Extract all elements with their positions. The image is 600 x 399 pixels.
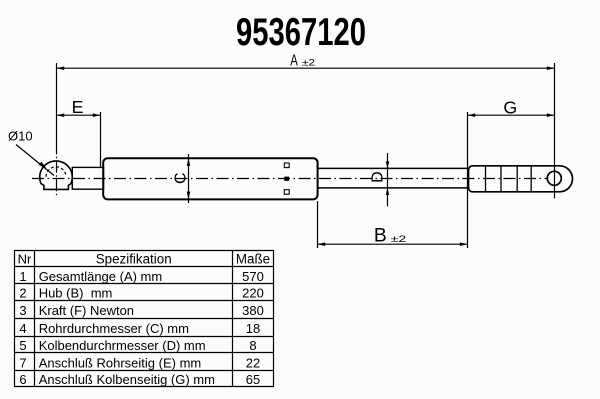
- svg-text:Ø10: Ø10: [8, 129, 33, 144]
- dim A arrow right: [547, 66, 555, 70]
- table right border: [273, 251, 275, 387]
- table top border: [14, 250, 274, 252]
- svg-text:Gesamtlänge (A) mm: Gesamtlänge (A) mm: [39, 269, 163, 284]
- svg-text:65: 65: [246, 372, 260, 387]
- rod-end fitting body: [469, 166, 573, 192]
- svg-text:Rohrdurchmesser (C) mm: Rohrdurchmesser (C) mm: [39, 321, 189, 336]
- svg-text:380: 380: [242, 303, 264, 318]
- svg-text:7: 7: [19, 355, 26, 370]
- dim C line (tube diameter): [188, 154, 190, 203]
- svg-text:±2: ±2: [302, 58, 315, 69]
- svg-text:Kraft (F) Newton: Kraft (F) Newton: [39, 303, 134, 318]
- svg-text:Anschluß Rohrseitig (E) mm: Anschluß Rohrseitig (E) mm: [39, 355, 202, 370]
- svg-text:95367120: 95367120: [236, 11, 366, 54]
- table text: [18, 251, 270, 387]
- svg-text:D: D: [370, 171, 387, 182]
- dim B arrow left: [318, 242, 326, 246]
- dim G extension line left / dim B extension line right: [467, 112, 469, 248]
- svg-text:4: 4: [19, 321, 26, 336]
- port dot center (filled): [284, 177, 289, 181]
- svg-text:Hub (B) mm: Hub (B) mm: [39, 286, 113, 301]
- fitting rib 1: [485, 166, 487, 192]
- dim B extension line left (below cylinder end): [317, 201, 319, 248]
- dim A arrow left: [57, 66, 65, 70]
- left eyelet ball socket: [40, 161, 73, 189]
- svg-text:3: 3: [19, 303, 26, 318]
- svg-text:1: 1: [19, 269, 26, 284]
- leader line Ø10: [16, 145, 54, 176]
- svg-text:570: 570: [242, 269, 264, 284]
- table bottom border: [14, 386, 274, 388]
- dim C arrow down: [187, 192, 191, 200]
- fitting rib 3: [516, 166, 518, 192]
- table row line 6: [14, 370, 274, 372]
- port square bottom: [284, 190, 289, 195]
- svg-text:Anschluß Kolbenseitig (G) mm: Anschluß Kolbenseitig (G) mm: [39, 372, 215, 387]
- dim E line: [57, 114, 101, 116]
- fitting rib 4: [530, 166, 532, 192]
- dim E arrow left: [57, 113, 65, 117]
- svg-text:6: 6: [19, 372, 26, 387]
- table divider Masse: [232, 251, 234, 387]
- svg-text:5: 5: [19, 338, 26, 353]
- table row line 4: [14, 336, 274, 338]
- dim A extension line left (through left eyelet center): [56, 63, 58, 154]
- fitting rib 2: [500, 166, 502, 192]
- eyelet inner dome (dashed): [46, 167, 66, 177]
- dim D line (rod diameter): [387, 153, 389, 206]
- centerline (dash-dot axis): [32, 178, 548, 180]
- dim G line: [468, 114, 555, 116]
- cylinder tube: [103, 158, 317, 199]
- table row line 5: [14, 352, 274, 354]
- dim C arrow up: [187, 158, 191, 166]
- svg-text:Kolbendurchrmesser (D) mm: Kolbendurchrmesser (D) mm: [39, 338, 206, 353]
- dim G arrow left: [468, 113, 476, 117]
- dim G arrow right: [547, 113, 555, 117]
- leader arrowhead: [39, 162, 47, 169]
- svg-text:18: 18: [246, 321, 260, 336]
- svg-text:22: 22: [246, 355, 260, 370]
- neck connector (tube side): [72, 167, 103, 189]
- dim A extension line right (through right eye center): [554, 63, 556, 198]
- svg-text:Nr: Nr: [18, 251, 32, 266]
- table row line 2: [14, 300, 274, 302]
- piston rod bottom edge: [318, 187, 469, 189]
- dim E arrow right: [93, 113, 101, 117]
- svg-text:B: B: [374, 225, 387, 246]
- fitting eye hole: [547, 171, 561, 185]
- dim B line: [318, 243, 468, 245]
- dim D arrow top (points down to rod): [386, 161, 390, 168]
- table divider Nr: [34, 251, 36, 387]
- dim D arrow bottom (points up to rod): [386, 188, 390, 195]
- svg-text:G: G: [503, 97, 517, 117]
- svg-text:2: 2: [19, 286, 26, 301]
- dim E extension line right (top of cylinder): [100, 112, 102, 167]
- table header divider: [14, 266, 274, 268]
- svg-text:8: 8: [249, 338, 256, 353]
- svg-text:E: E: [72, 97, 84, 117]
- spec table grid: [14, 251, 274, 387]
- piston rod top edge: [318, 167, 469, 169]
- table row line 1: [14, 283, 274, 285]
- svg-text:A: A: [290, 52, 298, 69]
- svg-text:Spezifikation: Spezifikation: [96, 252, 172, 267]
- port square top: [284, 163, 289, 168]
- table left border: [14, 251, 16, 387]
- svg-text:±2: ±2: [391, 234, 407, 245]
- svg-text:Maße: Maße: [236, 252, 270, 267]
- table row line 3: [14, 318, 274, 320]
- dim A line: [57, 67, 555, 69]
- svg-text:220: 220: [242, 286, 264, 301]
- dim B arrow right: [460, 242, 468, 246]
